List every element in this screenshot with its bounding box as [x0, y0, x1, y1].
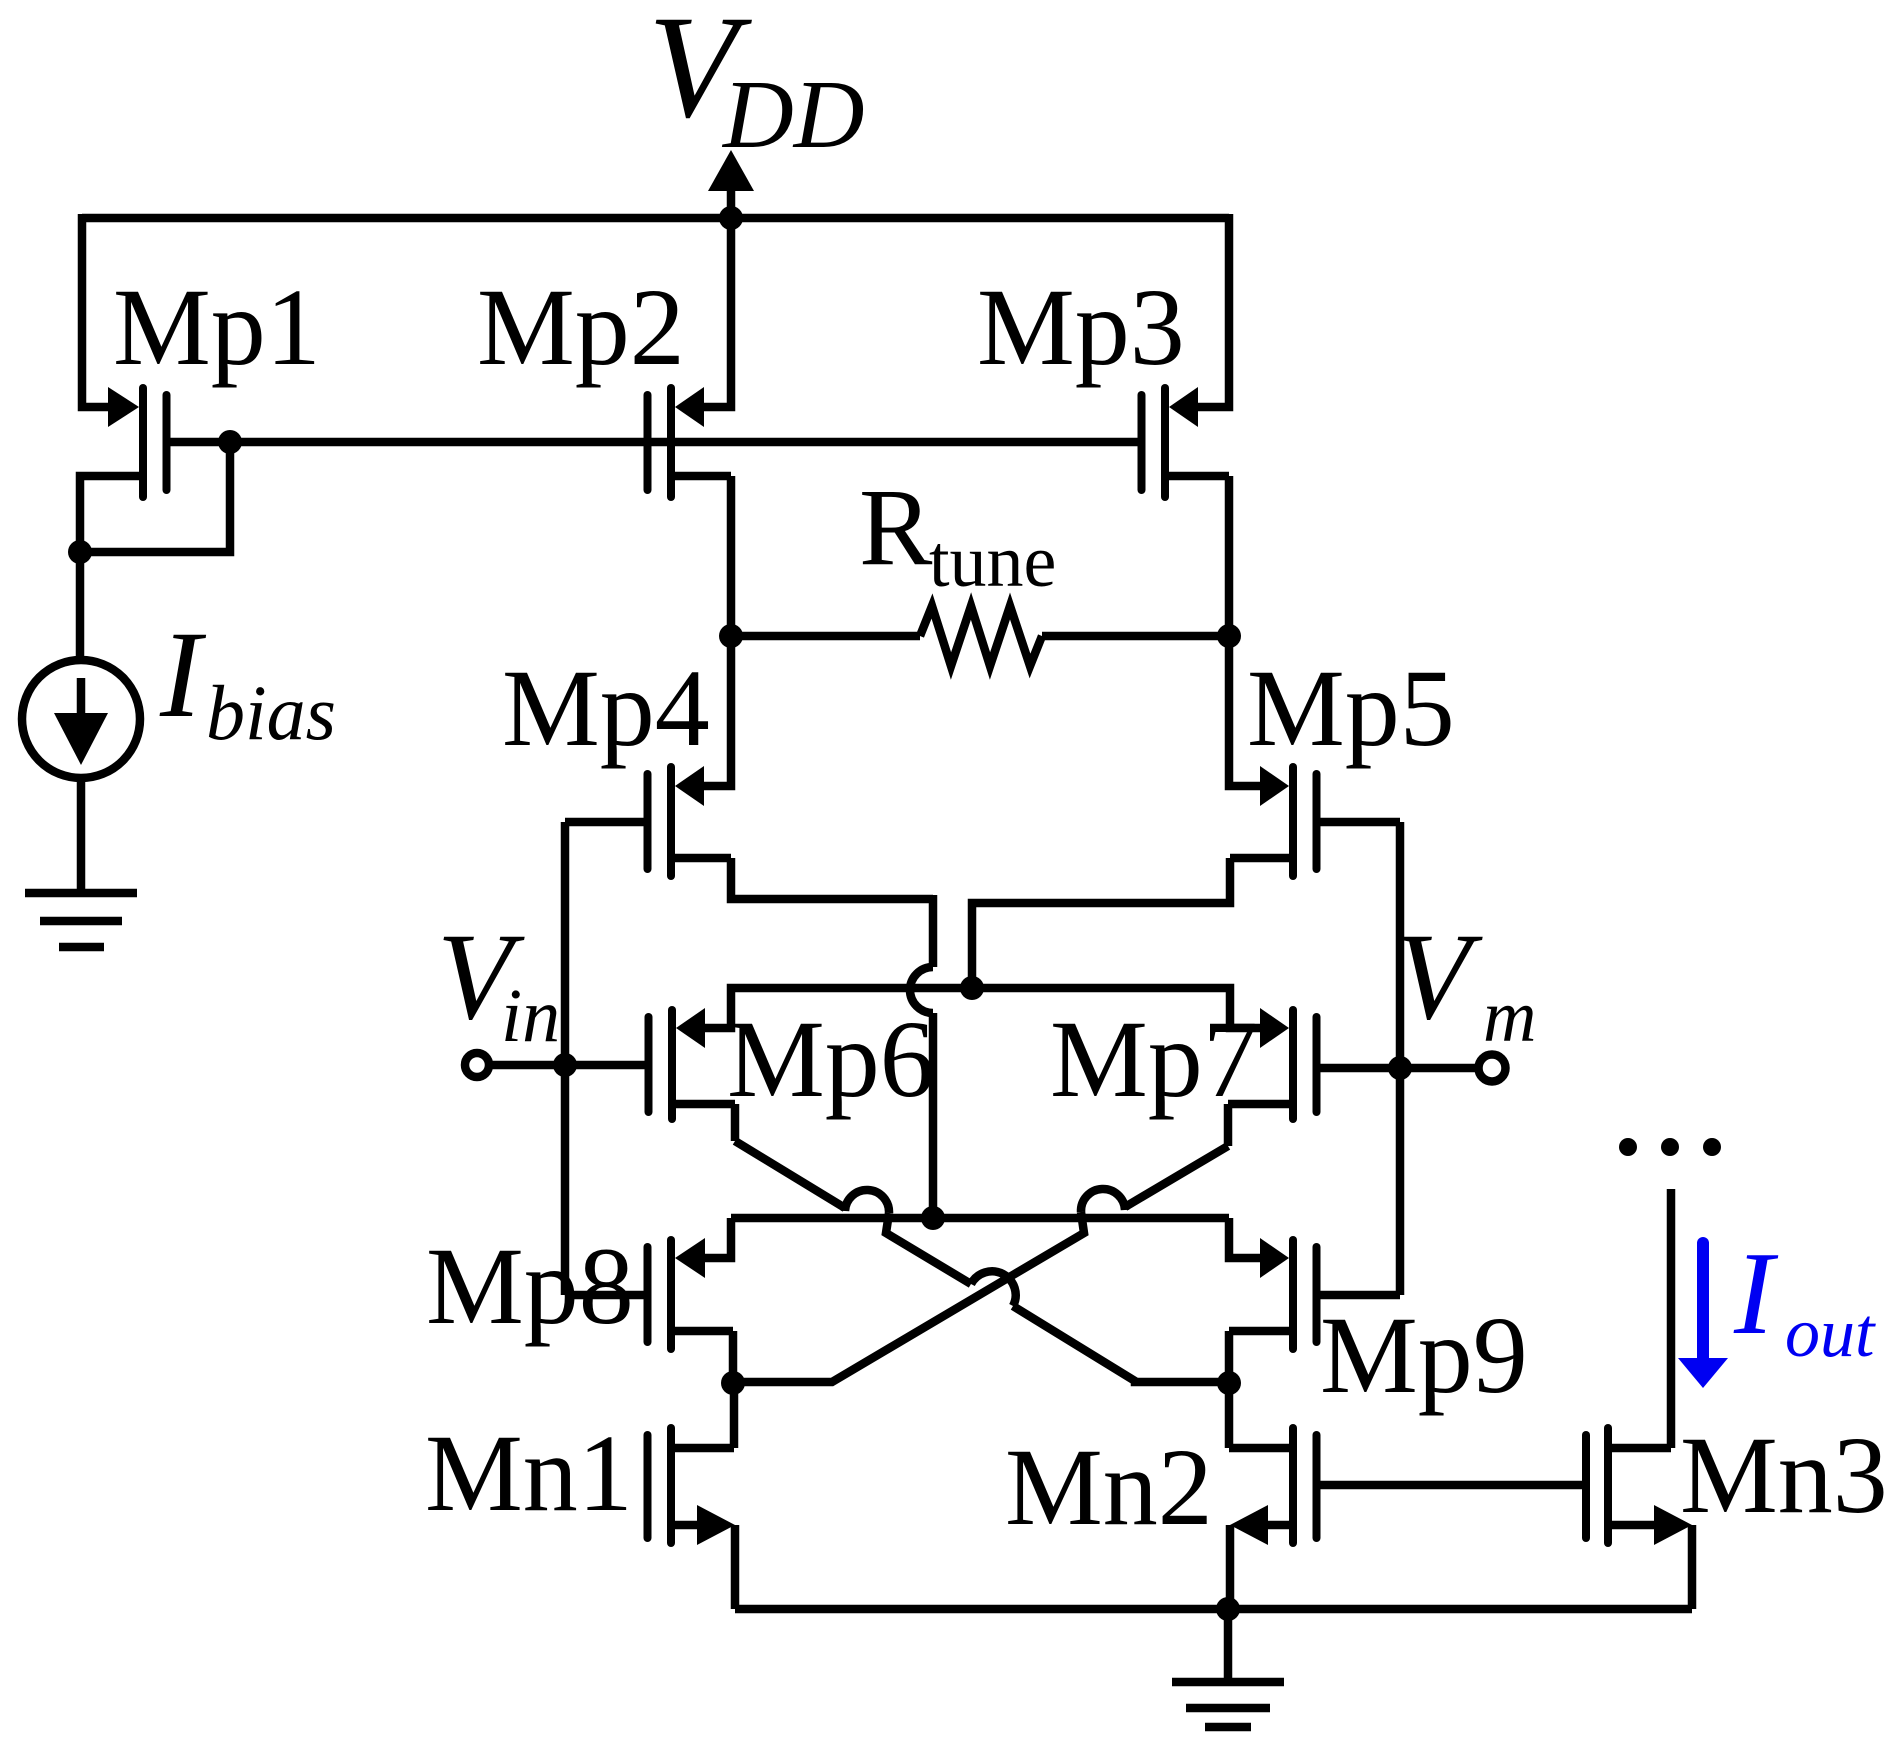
node Mp1 gate junction	[218, 430, 242, 454]
transistor Mn2	[1229, 1428, 1317, 1545]
node Vm junction	[1388, 1056, 1412, 1080]
node Mp1 drain junction	[68, 540, 92, 564]
svg-text:bias: bias	[206, 669, 336, 756]
svg-text:Mp7: Mp7	[1050, 998, 1258, 1120]
wire Mp4 gate to Vin line	[565, 818, 644, 827]
wire Mn2 source down	[1226, 1525, 1235, 1609]
terminal Vin	[465, 1053, 489, 1077]
wire Vm vertical line	[1396, 822, 1405, 1295]
svg-text:Mn2: Mn2	[1005, 1426, 1213, 1548]
wire Vin vertical line	[561, 822, 570, 1295]
node left cross junction	[721, 1371, 745, 1395]
svg-text:Mp3: Mp3	[977, 266, 1185, 388]
svg-text:DD: DD	[721, 61, 865, 169]
svg-text:Mp5: Mp5	[1247, 647, 1455, 769]
transistor Mp5	[1230, 766, 1317, 876]
node Mp4 drain to source rail	[921, 1206, 945, 1230]
wire Mp9 gate to Vm line	[1321, 1291, 1401, 1300]
transistor Mp4	[648, 766, 732, 876]
svg-text:Mp8: Mp8	[426, 1225, 634, 1347]
transistor Mp1	[80, 387, 230, 556]
wire Mp2 drain down	[727, 476, 736, 640]
ground under Ibias	[25, 893, 137, 947]
wire Mp9 drain down to node	[1225, 1331, 1234, 1383]
svg-text:Mp2: Mp2	[477, 266, 685, 388]
current source Ibias	[22, 660, 140, 778]
ground bottom symbol	[1172, 1609, 1284, 1727]
wire Mp2 source from rail	[704, 218, 731, 407]
wire Mp8 drain down to node	[729, 1331, 738, 1383]
svg-text:Mp6: Mp6	[727, 998, 935, 1120]
transistor Mp7	[1228, 1008, 1317, 1119]
svg-text:R: R	[859, 466, 933, 588]
wire Mn2 drain up to node	[1225, 1383, 1234, 1448]
wire Mp9 source from rail	[1229, 1218, 1260, 1258]
svg-text:I: I	[1733, 1227, 1779, 1359]
wire diode connection Mp1	[80, 442, 230, 552]
wire gate bus Mp1-Mp2-Mp3	[230, 438, 1138, 447]
wire Mp5 gate to Vm line	[1321, 818, 1401, 827]
wire Mp6 gate to Vin node	[565, 1061, 645, 1070]
wire vertical Mp4-drain column with hop	[929, 895, 938, 967]
svg-text:V: V	[1395, 908, 1483, 1045]
wire Mp3 drain down	[1225, 476, 1234, 640]
wire Mn3 source down	[1688, 1525, 1697, 1609]
node right Rtune junction	[1217, 624, 1241, 648]
node VDD junction dot	[719, 206, 743, 230]
node left Rtune junction	[719, 624, 743, 648]
wire to current source	[76, 548, 85, 661]
wire tail to Mp6 source	[705, 988, 972, 1028]
node Vin junction	[553, 1053, 577, 1077]
node right cross junction	[1217, 1371, 1241, 1395]
wire Mn1 source down	[731, 1525, 740, 1609]
wire Mp8/Mp9 source rail	[731, 1214, 1229, 1223]
svg-text:in: in	[501, 974, 560, 1058]
transistor Mp2	[648, 387, 732, 497]
wire Mp7 gate to Vm node	[1321, 1064, 1401, 1073]
wire Mp8 source from rail	[705, 1218, 731, 1258]
node ellipsis dots (more outputs)	[1619, 1138, 1721, 1156]
wire bottom ground rail	[735, 1605, 1692, 1614]
svg-text:Mn1: Mn1	[425, 1412, 633, 1534]
wire Mp7 drain down	[1224, 1104, 1233, 1146]
svg-text:Mp4: Mp4	[502, 647, 710, 769]
resistor Rtune	[731, 606, 1229, 666]
wire cross diagonal A (Mp6 drain to right node) with hops	[735, 1141, 845, 1208]
transistor Mn3	[1586, 1428, 1692, 1545]
transistor Mp3	[1142, 387, 1230, 497]
wire Iout arrow (blue)	[1678, 1243, 1728, 1388]
wire Mp5 drain to tail node	[972, 858, 1230, 992]
power VDD arrow symbol	[727, 188, 736, 218]
wire Mp8 gate to Vin line	[565, 1291, 644, 1300]
node tail junction	[960, 976, 984, 1000]
wire left rail down to Mp1 source	[82, 214, 109, 407]
node ground junction	[1216, 1597, 1240, 1621]
svg-text:Mp1: Mp1	[113, 266, 321, 388]
wire VDD top rail	[82, 214, 1229, 223]
wire Mp5 source from node	[1229, 636, 1260, 786]
svg-text:tune: tune	[929, 521, 1056, 603]
transistor Mp9	[1229, 1238, 1317, 1349]
svg-text:out: out	[1785, 1295, 1876, 1372]
wire Mn3 drain up (output branch)	[1667, 1189, 1676, 1448]
svg-text:m: m	[1483, 976, 1536, 1058]
svg-text:Mp9: Mp9	[1320, 1294, 1528, 1416]
wire Mp4 source from node	[704, 636, 731, 786]
wire Mp4 drain to tail column	[731, 858, 933, 899]
wire Mp3 source from rail	[1198, 214, 1229, 407]
terminal Vm	[1400, 1064, 1478, 1073]
svg-text:I: I	[159, 606, 207, 743]
wire Mp6 drain down	[731, 1104, 740, 1141]
wire Mn2 gate to Mn3 gate	[1321, 1481, 1583, 1490]
wire Mn1 drain up to node	[730, 1383, 739, 1448]
transistor Mn1	[648, 1428, 736, 1545]
wire tail to Mp7 source	[972, 988, 1260, 1028]
transistor Mp8	[648, 1238, 734, 1349]
wire Ibias to ground	[77, 778, 86, 891]
transistor Mp6	[649, 1008, 736, 1119]
svg-text:Mn3: Mn3	[1680, 1414, 1888, 1536]
wire cross diagonal B (Mp7 drain to left node) with hop	[1125, 1146, 1228, 1207]
